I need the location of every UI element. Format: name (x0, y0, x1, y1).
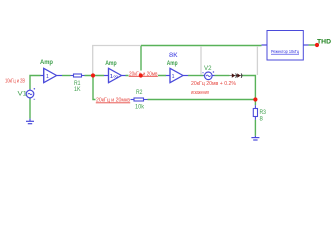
svg-text:1: 1 (172, 74, 175, 80)
wire R1 to node A and to Amp2 input (85, 75, 105, 77)
annotation measurement on Amp2 output (underlined) (129, 71, 159, 78)
svg-text:20кГц 20мв + 0.2%: 20кГц 20мв + 0.2% (191, 81, 236, 87)
svg-text:R3: R3 (260, 110, 267, 116)
annotation measurement on feedback wire (underlined) (96, 96, 131, 104)
wire V1 bottom stem to ground (29, 98, 31, 118)
svg-text:R2: R2 (136, 90, 143, 96)
wire Amp3 output to V2 (188, 75, 204, 77)
wire Amp1 output to R1 (62, 75, 71, 77)
wire marker to output node corner down to node B (243, 76, 256, 100)
node junction dot at Amp2 output riser (139, 73, 143, 77)
svg-text:искажения: искажения (191, 90, 209, 96)
resistor R3 (253, 105, 257, 120)
probe line rail to output node (gray) (256, 46, 258, 75)
wire feedback: node A down and right to R2 (93, 76, 131, 100)
wire Amp2 output to Amp3 input (126, 75, 167, 77)
svg-text:10кГц и 2В: 10кГц и 2В (5, 79, 26, 85)
svg-text:V2: V2 (204, 65, 212, 72)
voltage source V2 (distortion injector) (202, 71, 214, 79)
op-amp U2 (Amp, high gain) (104, 68, 126, 82)
wire node B down to R3 (254, 100, 256, 106)
wire riser Amp2 output to top rail (140, 46, 142, 76)
probe line rail to V2 input (gray) (200, 46, 202, 75)
svg-text:THD: THD (317, 38, 331, 45)
wire top rail to filter box (141, 45, 262, 47)
svg-text:1: 1 (46, 74, 49, 80)
node THD junction dot (315, 43, 319, 47)
svg-text:8К: 8К (169, 53, 178, 59)
svg-text:Amp: Amp (167, 60, 178, 67)
ground (R3) (251, 136, 259, 140)
svg-text:8: 8 (260, 117, 264, 123)
svg-text:Amp: Amp (105, 60, 117, 67)
voltage source V1 (26, 88, 35, 99)
svg-text:1K: 1K (74, 87, 81, 93)
svg-text:10k: 10k (135, 105, 145, 111)
op-amp U1 (Amp, buffer) (41, 68, 63, 82)
svg-text:V1: V1 (18, 91, 28, 98)
svg-text:Amp: Amp (40, 59, 53, 66)
resistor R1 (71, 74, 85, 77)
probe line node A to top rail (gray) (93, 46, 141, 76)
svg-text:1∞: 1∞ (110, 74, 119, 80)
notch filter block (Rezhektor 10kHz) (262, 31, 309, 61)
resistor R2 (131, 98, 148, 101)
wire R3 to ground (254, 120, 256, 136)
wire V2 to distortion marker (215, 75, 230, 77)
wire box output to THD node (309, 44, 318, 46)
wire R2 to node B (148, 99, 256, 101)
node B junction dot (R3 top) (253, 97, 257, 101)
node A junction dot (91, 73, 95, 77)
distortion marker symbol (230, 73, 243, 77)
op-amp U3 (Amp, 8K gain) (166, 68, 188, 82)
ground (V1) (26, 119, 34, 124)
svg-text:Режектор 10кГц: Режектор 10кГц (271, 49, 299, 54)
wire V1 top stem and input horizontal (30, 76, 41, 90)
